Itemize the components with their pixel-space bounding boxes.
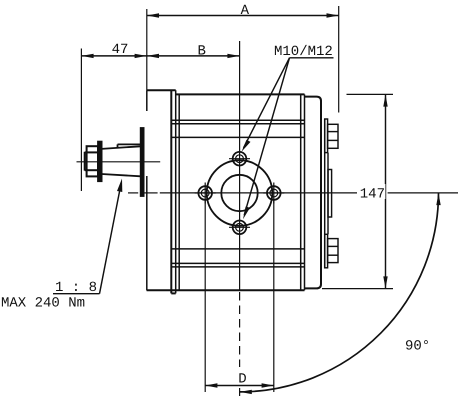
svg-text:90°: 90°: [405, 339, 430, 355]
svg-text:A: A: [241, 3, 250, 19]
svg-text:D: D: [238, 372, 246, 388]
svg-text:147: 147: [360, 187, 385, 203]
svg-text:B: B: [197, 44, 205, 60]
svg-text:47: 47: [112, 42, 129, 58]
svg-text:MAX 240 Nm: MAX 240 Nm: [1, 295, 85, 311]
